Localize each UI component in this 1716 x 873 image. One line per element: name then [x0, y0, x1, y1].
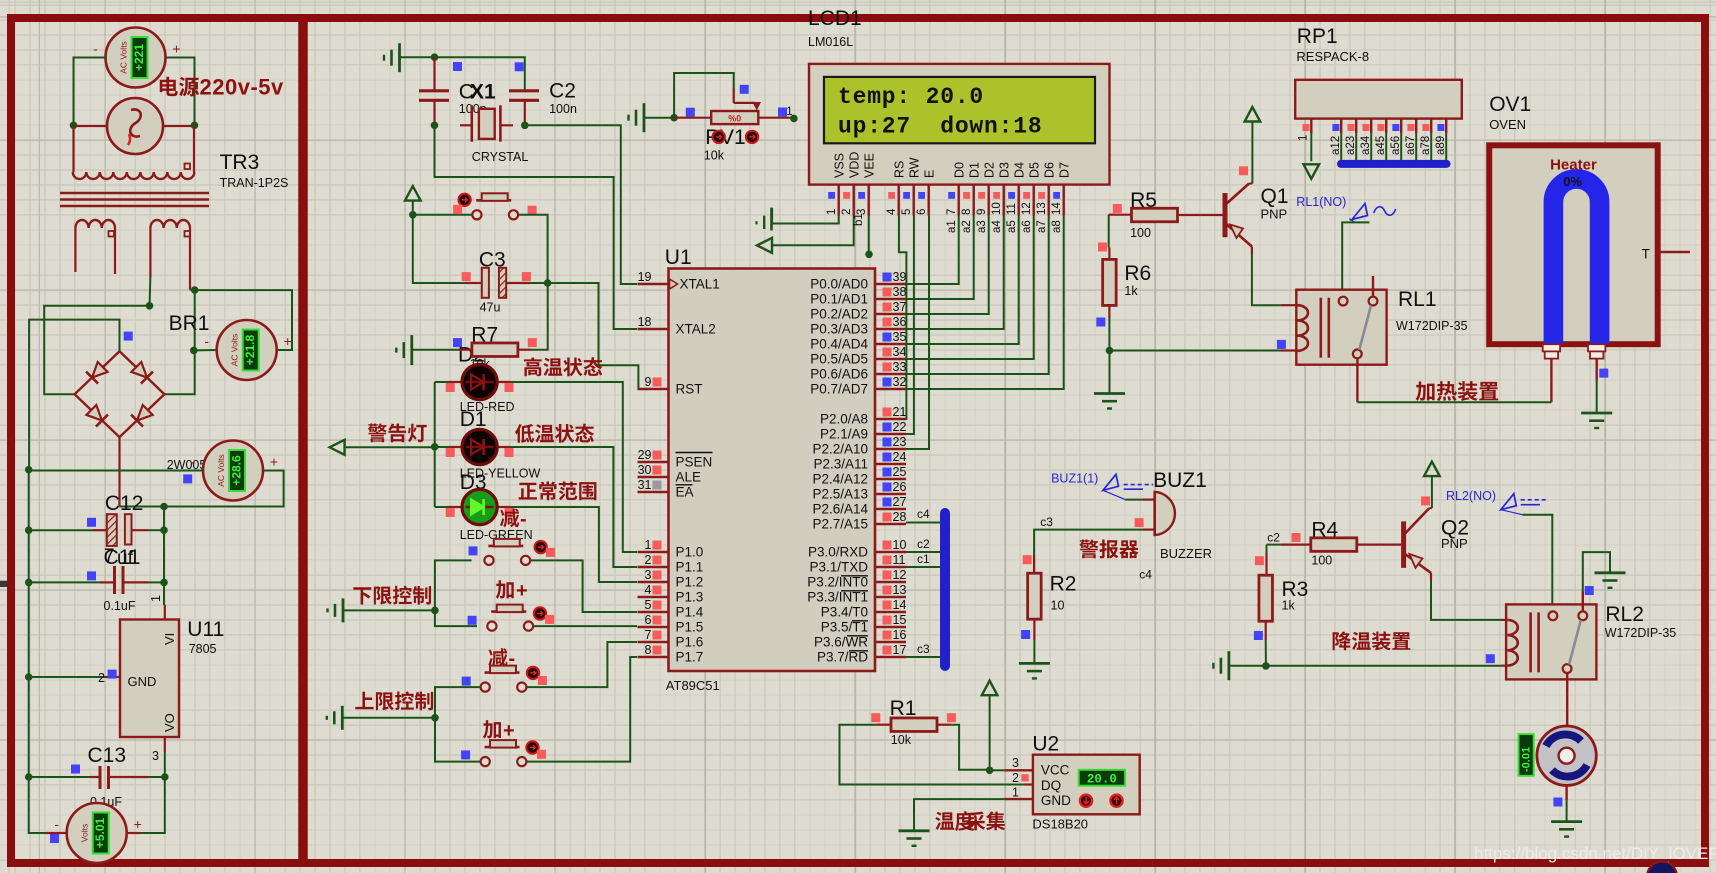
svg-text:a2: a2: [961, 220, 973, 233]
pin 14 P3.4/T0: [821, 598, 907, 620]
actuator button B3: [534, 607, 546, 619]
svg-text:a4: a4: [991, 220, 1003, 233]
wire R3 to node: [1265, 640, 1267, 666]
svg-text:RL1(NO): RL1(NO): [1296, 195, 1346, 209]
svg-text:29: 29: [638, 448, 652, 462]
svg-text:4: 4: [645, 583, 652, 597]
svg-text:36: 36: [893, 315, 907, 329]
svg-text:0%: 0%: [1563, 174, 1582, 189]
actuator button B1: [458, 194, 470, 206]
marker square RL1 coil wire: [1277, 340, 1286, 349]
svg-text:RL2: RL2: [1605, 603, 1644, 626]
pin 24 P2.3/A11: [813, 450, 906, 472]
power arrow left yellow LED: [330, 440, 345, 455]
svg-text:18: 18: [638, 315, 652, 329]
ground crystal rail: [384, 43, 400, 72]
capacitor C13: [100, 766, 109, 789]
svg-text:P0.6/AD6: P0.6/AD6: [810, 367, 868, 382]
pin 12 P3.2/INT0: [807, 568, 906, 590]
wire U11 pin3 down: [164, 737, 166, 752]
wire XTAL1 route: [525, 125, 637, 284]
svg-text:34: 34: [893, 345, 907, 359]
svg-text:E: E: [923, 170, 937, 178]
svg-text:P2.2/A10: P2.2/A10: [812, 442, 868, 457]
svg-text:D2: D2: [983, 162, 997, 178]
svg-text:LCD1: LCD1: [808, 7, 862, 30]
svg-text:220v-5v: 220v-5v: [200, 75, 285, 100]
wire P0.0 to LCD D0 (a1): [906, 216, 959, 285]
LED D3 green: [449, 489, 511, 524]
svg-text:P1.3: P1.3: [676, 590, 704, 605]
svg-text:OVEN: OVEN: [1489, 117, 1526, 132]
pin 2 P1.1: [638, 553, 704, 575]
transistor Q2 PNP: [1404, 508, 1431, 573]
wire LED red to P1.0: [510, 382, 637, 552]
power arrow Q1: [1245, 107, 1261, 150]
svg-text:26: 26: [893, 480, 907, 494]
label 减- button3: [488, 648, 515, 670]
marker squares R1: [871, 713, 880, 722]
svg-text:0.1uF: 0.1uF: [104, 599, 136, 613]
svg-text:-: -: [191, 454, 196, 470]
probe BUZ1: [1103, 474, 1153, 499]
actuator button B5: [526, 741, 538, 753]
svg-text:VSS: VSS: [833, 153, 847, 178]
sine source V1: [107, 98, 163, 154]
svg-text:a8: a8: [1051, 220, 1063, 233]
node LED column: [431, 443, 439, 451]
pin 38 P0.1/AD1: [810, 285, 906, 307]
marker blue square C12: [87, 518, 96, 527]
svg-text:P1.1: P1.1: [676, 560, 704, 575]
ground motor: [1551, 822, 1582, 837]
sheet origin tick left border: [0, 581, 7, 587]
svg-text:P3.1/TXD: P3.1/TXD: [809, 560, 868, 575]
svg-text:P3.0/RXD: P3.0/RXD: [808, 545, 868, 560]
svg-text:9: 9: [976, 209, 988, 215]
probe RL1 AC: [1349, 204, 1395, 223]
svg-text:P3.6/WR: P3.6/WR: [814, 635, 868, 650]
motor display -0.01: [1519, 734, 1534, 776]
svg-text:38: 38: [893, 285, 907, 299]
node C1 top: [431, 53, 439, 61]
wire sine right pin: [163, 125, 195, 127]
resistor pack RP1 body: [1295, 80, 1462, 119]
svg-text:P0.5/AD5: P0.5/AD5: [810, 352, 868, 367]
label 下限控制: [353, 586, 431, 605]
heater terminal right: [1588, 344, 1605, 358]
pin 11 P3.1/TXD: [809, 553, 906, 575]
svg-text:P3.4/T0: P3.4/T0: [821, 605, 868, 620]
wire LCD VEE dangling: [865, 216, 873, 259]
wire meter3 plus loop: [120, 471, 284, 507]
marker blue square C2: [515, 62, 524, 71]
svg-text:XTAL1: XTAL1: [680, 277, 720, 292]
LED D1 yellow: [449, 429, 511, 464]
wire motor to ground: [1565, 785, 1567, 800]
wire button B5 to P1.7: [527, 657, 637, 762]
marker squares C3: [462, 272, 471, 281]
svg-text:13: 13: [893, 583, 907, 597]
svg-text:12: 12: [893, 568, 907, 582]
wire button B4 to P1.6: [527, 642, 637, 687]
pin 31 EA: [638, 478, 694, 500]
RP1 pin 2 a12: [1330, 119, 1342, 161]
marker squares button B2: [469, 546, 478, 555]
wire ground to RL2 coil bottom: [1229, 665, 1501, 667]
label 加热装置: [1416, 381, 1499, 401]
ground LCD VSS: [757, 208, 839, 231]
marker square Q2: [1421, 496, 1430, 505]
label U11: [187, 618, 224, 656]
pin 15 P3.5/T1: [821, 613, 907, 635]
svg-text:AC Volts: AC Volts: [216, 454, 226, 487]
svg-text:2: 2: [1012, 771, 1019, 785]
wire R5 left to R6: [1108, 215, 1110, 248]
svg-text:W172DIP-35: W172DIP-35: [1396, 319, 1468, 333]
wire heater left terminal: [1550, 359, 1552, 403]
svg-text:11: 11: [1006, 203, 1018, 215]
pin 16 P3.6/WR: [814, 628, 906, 650]
svg-text:P2.6/A14: P2.6/A14: [812, 502, 868, 517]
relay RL1: [1296, 290, 1386, 365]
capacitor C3: [466, 268, 530, 298]
power arrow Q2: [1424, 462, 1440, 509]
svg-text:100: 100: [1311, 554, 1332, 568]
wire P0.7 to LCD D7 (a8): [906, 216, 1064, 390]
svg-text:D1: D1: [968, 162, 982, 178]
svg-text:+: +: [172, 41, 180, 57]
svg-text:c2: c2: [1267, 530, 1280, 544]
push button B5: [481, 740, 527, 766]
svg-text:GND: GND: [128, 674, 157, 689]
marker square heater: [1599, 369, 1608, 378]
wire C11 left: [29, 581, 100, 583]
svg-text:uf: uf: [117, 548, 134, 569]
svg-text:5: 5: [901, 209, 913, 215]
actuator button B4: [527, 667, 539, 679]
svg-text:ALE: ALE: [676, 470, 702, 485]
wire RL2 NC to ground hook: [1582, 591, 1584, 611]
wire C12 left: [29, 529, 93, 531]
marker square R3 bottom: [1254, 631, 1263, 640]
wire C13 left: [29, 776, 90, 778]
label C11 47uF overlap: [104, 546, 141, 569]
svg-text:1: 1: [645, 538, 652, 552]
svg-text:TRAN-1P2S: TRAN-1P2S: [220, 176, 289, 190]
ground rail R3 (rotated): [1213, 651, 1229, 680]
ground R2: [1019, 663, 1050, 678]
wire R1 left to DQ: [840, 725, 1025, 785]
svg-text:2: 2: [645, 553, 652, 567]
svg-text:3: 3: [152, 749, 159, 763]
svg-text:24: 24: [893, 450, 907, 464]
svg-text:4: 4: [886, 208, 898, 215]
pin 1 P1.0: [638, 538, 704, 560]
marker squares R6: [1098, 243, 1107, 252]
pin 4 P1.3: [638, 583, 704, 605]
ground RV1: [629, 103, 645, 132]
wire XTAL2 route: [435, 125, 638, 329]
wire P3.7 to bus c3: [906, 656, 940, 658]
label RL1: [1396, 288, 1468, 333]
svg-text:BUZZER: BUZZER: [1160, 546, 1212, 561]
svg-text:8: 8: [961, 209, 973, 215]
label 正常范围: [519, 482, 597, 501]
svg-text:D6: D6: [1043, 162, 1057, 178]
wire C11 right: [123, 581, 148, 583]
motor: [1537, 726, 1596, 785]
svg-text:RESPACK-8: RESPACK-8: [1296, 49, 1369, 64]
svg-text:VDD: VDD: [848, 152, 862, 178]
ground upper-limit: [327, 706, 343, 730]
label 温度采集: [935, 810, 1005, 834]
node button top: [409, 211, 417, 219]
resistor R6: [1103, 248, 1152, 319]
svg-text:31: 31: [638, 478, 652, 492]
pin 3 P1.2: [638, 568, 704, 590]
svg-text:%0: %0: [728, 114, 741, 124]
svg-text:-: -: [204, 333, 209, 349]
svg-text:C2: C2: [549, 79, 576, 102]
bus horizontal RP1: [1337, 160, 1451, 168]
display U2 20.0: [1079, 770, 1125, 787]
svg-text:P2.1/A9: P2.1/A9: [820, 427, 868, 442]
marker blue square C1: [453, 62, 462, 71]
capacitor C1: [419, 91, 449, 126]
wire meter BR to rail: [195, 290, 292, 350]
wire button B3 to P1.5: [534, 625, 637, 627]
pin 32 P0.7/AD7: [810, 375, 906, 397]
wire buzzer bottom c3: [1143, 528, 1155, 530]
marker square RL2 NC: [1585, 586, 1594, 595]
svg-text:CRYSTAL: CRYSTAL: [472, 150, 529, 164]
wire R4 to Q2 base: [1385, 543, 1402, 545]
marker square R2 bottom: [1021, 630, 1030, 639]
marker square buzzer: [1135, 518, 1144, 527]
LCD pin 8 D1: [961, 162, 982, 216]
svg-text:P1.2: P1.2: [676, 575, 704, 590]
wire U11 pin2: [29, 676, 106, 678]
wire button B2 to P1.4: [531, 560, 637, 612]
wire probe to RL2 switch: [1522, 515, 1552, 608]
svg-text:33: 33: [893, 360, 907, 374]
RP1 pin 3 a23: [1345, 119, 1357, 161]
marker squares button B3: [468, 616, 477, 625]
pin 23 P2.2/A10: [812, 435, 906, 457]
section divider: [298, 22, 308, 859]
transformer TR3 core: [60, 193, 209, 206]
svg-text:P1.4: P1.4: [676, 605, 704, 620]
label 降温装置: [1333, 632, 1411, 651]
heater terminal left: [1543, 344, 1560, 358]
svg-text:c2: c2: [917, 537, 930, 551]
push button B3: [487, 605, 533, 631]
wire voltmeter to left rail: [74, 58, 106, 126]
power arrow +V buttons: [405, 186, 421, 215]
voltmeter +28.6 (AC Volts): [191, 441, 278, 501]
svg-text:3: 3: [1012, 756, 1019, 770]
marker squares button B1: [453, 205, 462, 214]
wire secondary B left to bridge node: [44, 277, 150, 394]
capacitor C11: [115, 566, 124, 594]
svg-text:+28.6: +28.6: [229, 455, 243, 486]
wire node to button B5: [435, 718, 480, 762]
wire arrow to LED yellow: [345, 446, 435, 448]
pin 25 P2.4/A12: [812, 465, 906, 487]
label 电源220v-5v: [160, 75, 284, 100]
label 减- button1: [500, 509, 527, 531]
transformer TR3 secondary B: [150, 220, 190, 290]
oven OV1 body: [1489, 145, 1658, 344]
svg-text:+: +: [284, 333, 292, 349]
wire ground to RV1: [644, 117, 674, 119]
wire crystal top rail: [400, 57, 525, 90]
svg-text:a5: a5: [1006, 220, 1018, 233]
wire Q2 emitter to RL2 coil top: [1430, 573, 1432, 580]
wire P2.2 to LCD E: [906, 216, 929, 450]
svg-text:7: 7: [946, 209, 958, 215]
label 加+ button4: [483, 720, 515, 742]
pin 5 P1.4: [638, 598, 704, 620]
RP1 pin 1: [1298, 119, 1312, 162]
LCD pin 2 VDD: [841, 152, 862, 216]
pin 8 P1.7: [638, 643, 704, 665]
svg-text:47u: 47u: [480, 301, 501, 315]
svg-text:1k: 1k: [1124, 284, 1138, 298]
marker blue square C11: [87, 571, 96, 580]
svg-text:10: 10: [1051, 598, 1065, 612]
svg-text:RL1: RL1: [1398, 288, 1437, 311]
marker blue square C13: [71, 765, 80, 774]
svg-text:7: 7: [645, 628, 652, 642]
svg-text:37: 37: [893, 300, 907, 314]
svg-text:P3.3/INT1: P3.3/INT1: [807, 590, 868, 605]
LCD pin 4 RS: [886, 161, 907, 216]
wire arrow node down to C3: [413, 215, 466, 283]
svg-text:RST: RST: [676, 382, 703, 397]
svg-text:P0.0/AD0: P0.0/AD0: [810, 277, 868, 292]
ground heater: [1581, 413, 1612, 428]
pin 26 P2.5/A13: [812, 480, 906, 502]
transistor Q1 PNP: [1225, 184, 1252, 247]
resistor R1: [876, 718, 952, 747]
node U2 VCC: [986, 767, 994, 775]
wire LED column vertical: [434, 382, 436, 507]
label 警报器: [1079, 539, 1138, 558]
svg-text:+21.8: +21.8: [243, 334, 257, 365]
wire lower-limit ground to node: [343, 609, 435, 611]
label C2: [549, 79, 577, 116]
svg-text:LM016L: LM016L: [808, 35, 853, 49]
svg-text:P0.4/AD4: P0.4/AD4: [810, 337, 868, 352]
svg-text:16: 16: [893, 628, 907, 642]
wire heater right to ground: [1595, 359, 1597, 381]
label 警告灯: [368, 423, 427, 442]
svg-text:15: 15: [893, 613, 907, 627]
svg-text:D5: D5: [1028, 162, 1042, 178]
power arrow LCD VDD: [757, 216, 854, 253]
wire C13 right: [109, 776, 149, 778]
wire buzzer top pin: [1125, 499, 1143, 501]
svg-text:D7: D7: [1058, 162, 1072, 178]
svg-text:+: +: [516, 580, 528, 602]
LCD pin 10 D3: [991, 162, 1012, 216]
wire P0.3 to LCD D3 (a4): [906, 216, 1004, 330]
label C1 X1: [459, 81, 496, 116]
label OV1 OVEN: [1489, 93, 1531, 132]
node C3 right: [544, 279, 552, 287]
bridge rectifier BR1: [75, 351, 165, 437]
svg-text:P1.7: P1.7: [676, 650, 704, 665]
svg-text:PNP: PNP: [1441, 536, 1468, 551]
LCD pin 3 VEE: [856, 153, 877, 216]
marker blue squares RV1: [740, 85, 749, 94]
svg-text:-: -: [93, 41, 98, 57]
marker square motor: [1553, 798, 1562, 807]
wire P0.6 to LCD D6 (a7): [906, 216, 1049, 375]
svg-text:8: 8: [645, 643, 652, 657]
svg-text:P2.5/A13: P2.5/A13: [812, 487, 868, 502]
svg-text:10: 10: [991, 202, 1003, 215]
label 高温状态: [524, 357, 602, 376]
svg-text:c4: c4: [1139, 567, 1152, 581]
resistor R2: [1028, 555, 1077, 640]
wire RL2 pole to motor: [1566, 673, 1568, 726]
pin 18 XTAL2: [638, 315, 716, 337]
wire button B1 to C3 node: [519, 215, 548, 283]
wire sine left pin: [74, 125, 108, 127]
svg-text:TR3: TR3: [220, 151, 260, 174]
svg-text:100: 100: [1130, 226, 1151, 240]
wire node to button B3: [435, 610, 477, 626]
wire P0.4 to LCD D4 (a5): [906, 216, 1019, 345]
svg-text:12: 12: [1021, 202, 1033, 215]
svg-text:P2.7/A15: P2.7/A15: [812, 517, 868, 532]
svg-text:c4: c4: [917, 507, 930, 521]
sensor U2 DS18B20 body: [1033, 755, 1140, 815]
LCD pin 9 D2: [976, 162, 997, 216]
power arrow down RP1: [1304, 164, 1320, 179]
actuator RV1 left: [713, 131, 725, 143]
wire LED green to P1.2: [510, 507, 637, 582]
marker square R2 top: [1023, 555, 1032, 564]
svg-text:P0.7/AD7: P0.7/AD7: [810, 382, 868, 397]
svg-text:2: 2: [841, 209, 853, 215]
capacitor C12: [105, 492, 144, 546]
svg-text:19: 19: [638, 270, 652, 284]
wire P2.7 to bus c4: [906, 522, 940, 524]
wire node to button1: [435, 560, 472, 610]
wire P0.1 to LCD D1 (a2): [906, 216, 974, 300]
pin 6 P1.5: [638, 613, 704, 635]
ground R7: [396, 335, 412, 365]
svg-text:9: 9: [645, 375, 652, 389]
svg-text:1: 1: [149, 595, 163, 602]
svg-text:VI: VI: [162, 633, 177, 645]
svg-text:temp: 20.0: temp: 20.0: [838, 84, 984, 110]
svg-text:a6: a6: [1021, 220, 1033, 233]
svg-text:-: -: [54, 816, 59, 832]
svg-text:BUZ1: BUZ1: [1153, 469, 1207, 492]
pin 39 P0.0/AD0: [810, 270, 906, 292]
svg-text:P3.2/INT0: P3.2/INT0: [807, 575, 868, 590]
LCD pin 7 D0: [946, 162, 967, 216]
resistor R5: [1130, 189, 1177, 240]
pin 29 PSEN: [638, 448, 713, 470]
voltmeter +5.01 (Volts): [54, 803, 141, 863]
resistor R4: [1281, 518, 1385, 567]
